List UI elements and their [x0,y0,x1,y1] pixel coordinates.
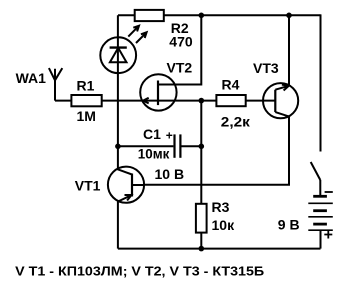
capacitor C1 [173,134,175,157]
svg-text:470: 470 [169,34,193,50]
node dot top rail / VT3 emitter [286,13,292,19]
node dot VT2 source / R3 riser [199,98,205,104]
wire battery bottom lead [320,230,322,248]
wire switch to battery [319,180,321,196]
wire C1 right lead [182,145,202,147]
battery minus sign [325,191,333,193]
svg-text:R3: R3 [212,199,230,215]
antenna WA1 [49,68,62,101]
node dot C1 right / R3 riser [199,144,205,150]
svg-text:WA1: WA1 [16,70,47,86]
svg-text:9 В: 9 В [278,217,300,233]
LED arrow 1 [128,26,139,37]
svg-text:10к: 10к [212,217,236,233]
wire antenna to R1 [55,100,71,102]
wire VT3 collector down and left to VT1 base (crosses R3 riser, no dot) [144,116,289,184]
wire riser from VT2 source node down to R3 [200,101,202,204]
battery plus sign [324,231,332,239]
wire top rail right segment [164,14,321,16]
wire R1 to VT2 gate and source line to R4 (crosses left riser, no dot) [102,100,217,102]
svg-text:10 В: 10 В [155,166,185,182]
wire VT2 drain lead and riser to top rail [158,15,201,84]
wire bottom rail [118,248,321,250]
LED diode in circle [100,37,136,73]
wire VT1 emitter riser to bottom rail [117,202,119,249]
wire R3 bottom lead [200,233,202,249]
resistor R2 [135,10,164,21]
wire right rail down to switch [320,14,322,151]
svg-text:VT2: VT2 [167,60,193,76]
svg-text:R1: R1 [77,78,95,94]
transistor VT2 (FET) [140,74,176,110]
switch blade [311,162,321,180]
svg-text:2,2к: 2,2к [221,114,251,130]
LED arrow 2 [136,32,147,43]
resistor R1 [71,95,101,106]
svg-text:V Т1 - КП103ЛМ; V Т2, V Т3 - К: V Т1 - КП103ЛМ; V Т2, V Т3 - КТ315Б [15,264,264,279]
wire top rail left segment [118,14,135,16]
node dot top rail / VT2 drain [199,13,205,19]
svg-text:+: + [166,129,173,143]
node dot R3 / bottom rail [199,246,205,252]
transistor VT1 [108,167,144,203]
svg-text:R4: R4 [222,77,240,93]
battery 9V [313,195,327,198]
resistor R3 [196,204,207,233]
transistor VT3 [263,83,298,118]
svg-text:VT1: VT1 [75,178,101,194]
resistor R4 [216,95,245,106]
wire C1 left lead [118,145,173,147]
svg-text:C1: C1 [143,126,161,142]
svg-text:VT3: VT3 [253,60,279,76]
wire left riser (top rail through LED down to VT1) [117,15,119,169]
svg-text:1M: 1M [77,108,96,124]
svg-text:10мк: 10мк [138,146,170,162]
node dot C1 left / left riser [115,144,121,150]
wire VT3 emitter riser to top rail [288,15,290,86]
wire R4 to VT3 base [246,100,276,102]
